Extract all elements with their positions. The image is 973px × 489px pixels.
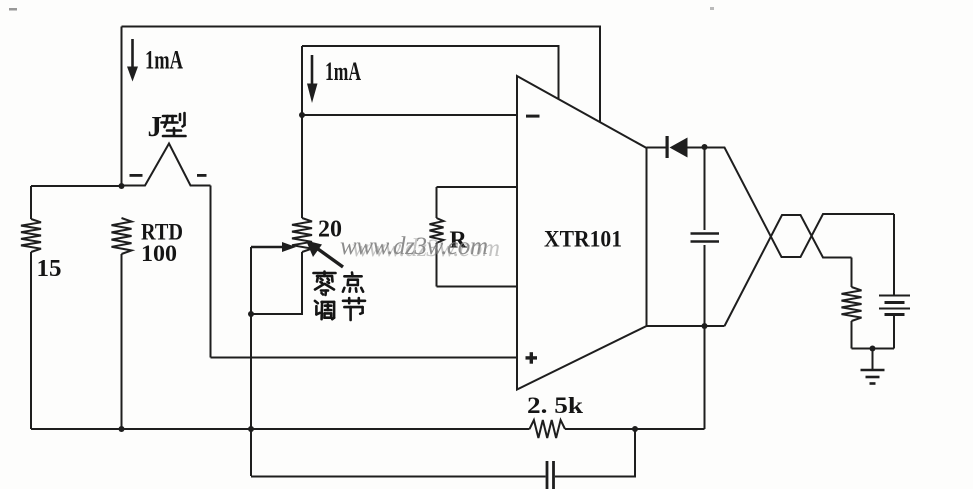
wire feedback lower left <box>251 476 546 478</box>
svg-text:1mA: 1mA <box>145 46 183 75</box>
arrow 1mA inner <box>307 55 318 103</box>
svg-text:1mA: 1mA <box>325 57 361 86</box>
wire 15-resistor column top <box>30 186 32 219</box>
svg-text:100: 100 <box>141 241 177 266</box>
node junction wiper <box>248 311 254 317</box>
wire inner top rail <box>302 46 559 100</box>
wire R-loop left top <box>436 187 438 218</box>
resistor 2.5k <box>530 420 566 438</box>
label 零 of zero-adjust <box>314 272 336 296</box>
wire XTR101 bottom out <box>647 325 725 327</box>
wire bottom out drop to rail <box>704 326 706 429</box>
node junction diode out <box>702 144 708 150</box>
wire R-loop bottom <box>437 286 518 288</box>
wire cap column bottom <box>704 245 706 326</box>
svg-text:20: 20 <box>318 217 342 243</box>
op-amp U1 XTR101 body <box>517 76 647 390</box>
svg-text:15: 15 <box>37 256 62 282</box>
resistor RTD 100 <box>112 218 132 254</box>
wire ground stub <box>872 349 874 370</box>
capacitor C1 <box>691 234 720 242</box>
wire pot wiper <box>250 247 252 314</box>
wire load resistor lead bottom <box>851 321 853 349</box>
label XTR101 plus input <box>526 352 538 364</box>
wire twisted pair upper strand <box>705 148 895 258</box>
arrow zero-adjust annotation <box>306 241 343 268</box>
diode D1 <box>647 136 705 158</box>
resistor RL <box>842 287 862 321</box>
wire 15-resistor top link <box>31 185 122 187</box>
speck top-left <box>9 8 17 11</box>
label 节 of zero-adjust <box>343 298 365 320</box>
label 调 of zero-adjust <box>315 301 334 319</box>
wire battery lead bottom <box>893 316 895 349</box>
battery B1 <box>879 296 910 315</box>
watermark <box>340 233 500 262</box>
node junction RTD bottom <box>119 426 125 432</box>
wire thermocouple right lead down <box>210 186 212 358</box>
ground <box>861 370 885 384</box>
wire cap column top <box>704 147 706 230</box>
label thermocouple right minus <box>197 174 207 177</box>
node junction minus-input <box>299 112 305 118</box>
wire left 1mA column <box>121 27 123 187</box>
wire feedback lower right <box>555 429 635 477</box>
wire battery lead top <box>893 214 895 295</box>
arrow 1mA left <box>127 39 138 82</box>
wire inner 1mA column to pot top <box>301 46 303 218</box>
wire wiper column to bottom <box>250 314 252 476</box>
wire twisted pair lower strand <box>725 215 852 326</box>
thermocouple J-type <box>122 144 211 186</box>
wire bottom rail right <box>565 428 705 430</box>
label 点 of zero-adjust <box>343 273 363 292</box>
wire minus input to XTR101 <box>302 114 517 116</box>
node junction wiper bottom <box>248 426 254 432</box>
wire pot bottom loop <box>251 252 302 314</box>
capacitor C2 feedback <box>547 461 554 489</box>
wire output ground link <box>852 348 895 350</box>
node junction RTD top <box>119 183 125 189</box>
node junction feedback <box>632 426 638 432</box>
svg-text:J: J <box>148 111 163 143</box>
potentiometer 20 <box>292 218 312 252</box>
wire load resistor lead top <box>851 258 853 288</box>
wire plus input to XTR101 <box>211 357 518 359</box>
svg-text:www.dz3w.com: www.dz3w.com <box>352 235 500 262</box>
node junction ground <box>870 346 876 352</box>
wire bottom rail left <box>31 428 530 430</box>
svg-text:2. 5k: 2. 5k <box>527 393 583 418</box>
wire R-loop top <box>437 186 518 188</box>
wire top rail from RTD column to pin 8 drop <box>122 27 601 123</box>
svg-text:XTR101: XTR101 <box>544 227 622 252</box>
resistor R <box>430 218 444 243</box>
label 型 of J-type <box>162 113 186 136</box>
node junction bottom out <box>702 323 708 329</box>
speck top-mid <box>710 7 714 10</box>
wire R-loop left bottom <box>436 243 438 287</box>
arrow pot wiper <box>251 242 296 252</box>
wire 15-resistor column bottom <box>30 252 32 429</box>
label XTR101 minus input <box>526 115 540 118</box>
label thermocouple left minus <box>130 174 143 177</box>
wire RTD column bottom <box>121 254 123 429</box>
resistor 15 <box>21 219 41 252</box>
